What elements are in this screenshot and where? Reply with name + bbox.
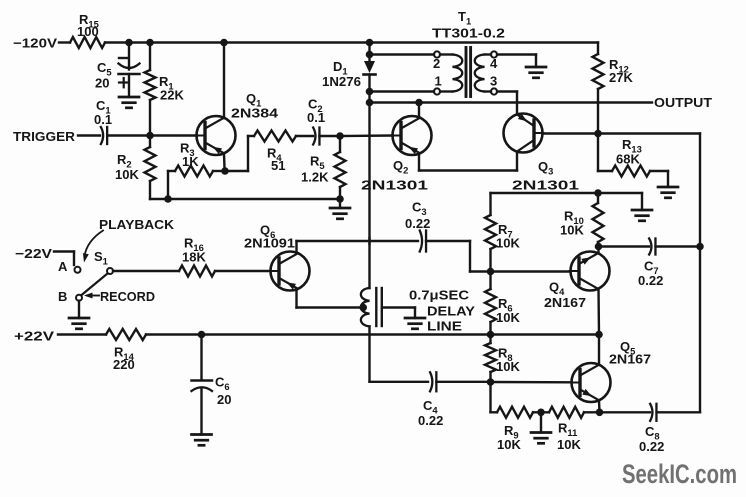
wire C8 left <box>600 411 651 413</box>
node junction top C5 <box>125 39 133 47</box>
wire B to ground <box>78 301 80 318</box>
wire delay tap to ground <box>382 308 415 319</box>
wire Q4 base <box>491 270 571 272</box>
svg-text:10K: 10K <box>497 437 521 452</box>
svg-text:TRIGGER: TRIGGER <box>13 129 76 144</box>
svg-text:10K: 10K <box>557 437 581 452</box>
svg-text:OUTPUT: OUTPUT <box>654 95 712 110</box>
transistor Q6 <box>244 223 310 291</box>
svg-text:10K: 10K <box>496 310 520 325</box>
node junction top Q1 collector <box>220 39 228 47</box>
resistor R13 <box>598 134 668 188</box>
wire emitter resistor rail y=193 <box>491 192 643 194</box>
transformer T1 pin3 terminal <box>491 88 497 94</box>
diode D1 <box>322 59 376 89</box>
wire pin2 lead <box>370 53 435 55</box>
node watermark <box>622 459 737 489</box>
node RECORD label <box>84 289 155 304</box>
resistor R1 <box>145 43 185 136</box>
svg-text:TT301-0.2: TT301-0.2 <box>432 26 505 41</box>
svg-text:100: 100 <box>77 24 99 39</box>
svg-text:2: 2 <box>433 56 440 71</box>
svg-text:SeekIC.com: SeekIC.com <box>622 459 737 489</box>
wire R11 to Q5 collector <box>584 411 600 413</box>
wire pin3 to Q3 <box>497 92 517 115</box>
wire node to Q2 base <box>340 134 392 137</box>
resistor R10 <box>560 193 604 247</box>
node D1 output rail junction <box>366 99 374 107</box>
svg-text:0.22: 0.22 <box>638 273 663 288</box>
node +22V supply <box>14 329 54 344</box>
switch S1 pivot <box>94 249 113 274</box>
svg-text:10K: 10K <box>115 167 139 182</box>
ground under C6 <box>192 435 212 446</box>
wire top to D1 <box>368 43 370 62</box>
svg-text:4: 4 <box>490 56 498 71</box>
wire C4 right <box>436 381 490 383</box>
terminal A <box>58 259 81 274</box>
node delay line tap <box>359 304 367 312</box>
resistor R2 <box>115 136 156 200</box>
node Q2 collector junction <box>415 99 423 107</box>
ground between R9 R11 <box>531 433 551 444</box>
svg-text:1K: 1K <box>182 154 199 169</box>
wire Q2 emitter <box>418 154 420 171</box>
node R8 C4 Q5 junction <box>487 378 495 386</box>
wire C7 to right rail <box>656 245 701 247</box>
wire Q6 collector <box>297 241 419 252</box>
wire C1 to node <box>107 134 150 136</box>
wire C2 to node <box>319 135 340 137</box>
resistor R4 <box>254 131 296 174</box>
svg-text:0.22: 0.22 <box>405 216 430 231</box>
wire -22V lead <box>54 252 74 266</box>
wire long vertical to delay line <box>368 103 370 289</box>
node D1 xfmr pin2 junction <box>366 51 374 59</box>
capacitor C8 <box>639 404 664 454</box>
pin number 3 <box>490 74 497 89</box>
wire top rail y=42 <box>105 41 598 43</box>
svg-text:68K: 68K <box>616 152 640 167</box>
capacitor C2 <box>307 97 325 145</box>
transformer T1 pin1 terminal <box>434 88 440 94</box>
transformer T1 primary winding <box>440 55 462 92</box>
resistor R11 <box>549 407 584 452</box>
svg-text:2N1301: 2N1301 <box>512 178 579 193</box>
wire pin4 to ground <box>497 55 536 68</box>
wire Q5 emitter <box>598 335 600 365</box>
wire Q5 base leg down <box>489 382 491 412</box>
node delay line label <box>409 288 475 334</box>
wire R4 to C2 <box>296 135 313 137</box>
wire Q5 base <box>491 381 572 384</box>
wire right vertical <box>699 134 701 413</box>
node delay line top junction <box>368 238 370 244</box>
node -22V supply <box>15 246 52 261</box>
ground under B <box>69 318 89 329</box>
node C6 junction <box>198 331 206 339</box>
wire D1 cathode down <box>368 75 370 103</box>
wire rail to ground <box>641 193 643 210</box>
node Q1 emitter junction <box>221 167 229 175</box>
transistor Q2 <box>361 116 432 193</box>
node junction top D1 <box>366 39 374 47</box>
wire C8 right <box>657 411 700 413</box>
wire bottom left rail y=199 <box>150 198 340 200</box>
playback arrow <box>83 231 103 263</box>
wire Q3 lower lead <box>516 152 518 171</box>
svg-text:A: A <box>58 259 68 274</box>
svg-text:−120V: −120V <box>13 36 57 51</box>
capacitor C6 <box>192 375 232 408</box>
wire Q6 emitter <box>297 291 364 308</box>
node Q4 emitter junction <box>595 243 603 251</box>
svg-text:0.22: 0.22 <box>639 439 664 454</box>
svg-text:DELAY: DELAY <box>427 304 475 319</box>
ground at emitter rail <box>632 210 652 221</box>
node R5 ground junction <box>336 195 344 203</box>
svg-text:20: 20 <box>95 76 109 91</box>
svg-text:0.22: 0.22 <box>418 413 443 428</box>
resistor R7 <box>485 193 520 272</box>
wire Q4 collector <box>597 289 600 335</box>
wire Q1 collector <box>223 43 225 119</box>
svg-text:1: 1 <box>435 74 442 89</box>
switch S1 blade <box>81 273 107 295</box>
node C7 right junction <box>696 243 704 251</box>
delay line plates <box>376 288 382 326</box>
wire Q4 emitter <box>597 247 599 254</box>
transistor Q4 <box>544 252 610 311</box>
wire delay line bottom <box>368 326 370 381</box>
svg-text:2N167: 2N167 <box>609 352 651 367</box>
wire Q3 base to right rail <box>543 132 701 134</box>
svg-text:0.1: 0.1 <box>307 110 325 125</box>
svg-text:1.2K: 1.2K <box>301 170 329 185</box>
wire output rail y=102 <box>370 101 653 103</box>
svg-text:RECORD: RECORD <box>100 289 155 304</box>
svg-text:22K: 22K <box>160 88 184 103</box>
node R6 R8 junction <box>487 331 495 339</box>
wire pin1 lead <box>370 90 435 92</box>
ground at T1 pin4 <box>526 67 546 78</box>
svg-text:−22V: −22V <box>15 246 52 261</box>
resistor R8 <box>485 335 520 383</box>
node -120V supply <box>13 36 57 51</box>
wire trigger to C1 <box>78 134 100 136</box>
wire R12 to R13 node <box>597 103 599 134</box>
pin number 1 <box>435 74 442 89</box>
resistor R16 <box>113 236 270 277</box>
svg-text:LINE: LINE <box>427 319 462 334</box>
svg-text:2N167: 2N167 <box>544 295 586 310</box>
ground under R5 <box>330 208 350 219</box>
svg-text:10K: 10K <box>560 223 584 238</box>
node Q4 collector junction <box>595 331 603 339</box>
wire Q5 collector <box>598 400 601 412</box>
wire Q1 emitter <box>223 154 226 172</box>
transistor Q1 <box>196 91 279 155</box>
wire emitter to R4 <box>225 136 254 171</box>
node PLAYBACK label <box>99 217 175 232</box>
capacitor C1 <box>94 98 112 144</box>
capacitor C7 <box>638 239 663 289</box>
node R7 Q4 base junction <box>487 268 495 276</box>
svg-text:51: 51 <box>271 158 285 173</box>
wire R9R11 gnd stub <box>540 412 542 432</box>
resistor R12 <box>593 43 634 103</box>
capacitor C3 <box>405 200 430 252</box>
node R10 top junction <box>594 189 602 197</box>
wire emitters Q2-Q3 <box>419 169 517 171</box>
transformer T1 pin2 terminal <box>434 51 440 57</box>
node OUTPUT label <box>654 95 712 110</box>
pin number 4 <box>490 56 498 71</box>
resistor R15 <box>70 12 105 48</box>
node junction top R1 <box>146 39 154 47</box>
svg-text:PLAYBACK: PLAYBACK <box>99 217 175 232</box>
wire R5 gnd stub <box>339 199 341 208</box>
node trigger junction <box>146 132 154 140</box>
wire C6 to ground <box>200 389 202 435</box>
wire Q4 emitter to C7 <box>599 245 650 247</box>
svg-text:220: 220 <box>113 357 135 372</box>
ground at delay line <box>405 318 425 329</box>
svg-text:0.7μSEC: 0.7μSEC <box>409 288 470 303</box>
wire +22V lead <box>58 333 106 335</box>
wire C3 to R7 leg <box>426 241 491 272</box>
transformer T1 secondary winding <box>475 55 491 92</box>
terminal B <box>58 289 82 304</box>
wire C6 top <box>200 335 202 381</box>
node R9 R11 ground junction <box>537 409 545 417</box>
pin number 2 <box>433 56 440 71</box>
wire C4 left <box>370 381 429 383</box>
svg-text:2N1091: 2N1091 <box>244 236 295 251</box>
wire -120V to R15 <box>59 41 70 43</box>
node D1 xfmr pin1 junction <box>366 88 374 96</box>
transformer T1 pin4 terminal <box>491 51 497 57</box>
svg-text:2N1301: 2N1301 <box>361 178 428 193</box>
svg-text:+22V: +22V <box>14 329 54 344</box>
transistor Q3 <box>504 114 580 193</box>
capacitor C5 <box>95 58 140 91</box>
svg-text:0.1: 0.1 <box>94 112 112 127</box>
svg-text:27K: 27K <box>609 70 633 85</box>
wire C5 to ground <box>128 74 130 97</box>
transistor Q5 <box>571 339 652 402</box>
svg-text:3: 3 <box>490 74 497 89</box>
node Q5 collector junction <box>596 409 604 417</box>
wire to R9 <box>491 411 498 413</box>
wire base Q1 <box>150 134 197 136</box>
wire +22V rail <box>146 333 599 335</box>
svg-text:1N276: 1N276 <box>322 74 361 89</box>
node TRIGGER input <box>13 129 76 144</box>
resistor R5 <box>301 136 346 199</box>
resistor R6 <box>485 272 520 335</box>
svg-text:10K: 10K <box>496 359 520 374</box>
transformer T1 core <box>466 48 471 97</box>
transformer T1 labels <box>432 9 505 41</box>
wire C5 top <box>128 43 130 70</box>
node R3 leg junction <box>164 195 172 203</box>
wire R9 to R11 <box>533 411 549 413</box>
svg-text:2N384: 2N384 <box>231 106 279 121</box>
svg-text:18K: 18K <box>182 250 206 265</box>
svg-text:10K: 10K <box>496 236 520 251</box>
wire Q2 collector <box>418 103 420 118</box>
svg-text:20: 20 <box>217 392 231 407</box>
resistor R14 <box>106 329 146 372</box>
node R13 junction <box>594 130 602 138</box>
capacitor C4 <box>418 372 443 428</box>
ground at R13 <box>658 187 678 198</box>
ground under C5 <box>119 97 139 108</box>
delay line coil <box>361 288 370 326</box>
resistor R3 <box>168 141 225 200</box>
resistor R9 <box>497 407 533 452</box>
node C2 R5 junction <box>336 132 344 140</box>
svg-text:B: B <box>58 289 67 304</box>
